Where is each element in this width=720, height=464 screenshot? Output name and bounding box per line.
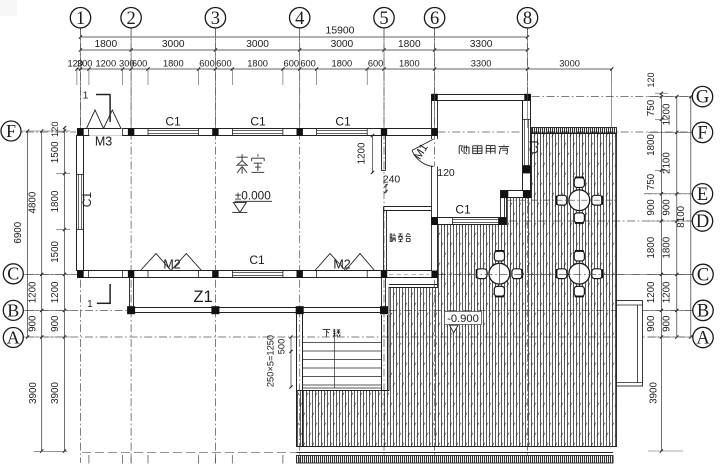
window C1 left — [78, 174, 80, 230]
dim row B 1800/3000... — [81, 49, 528, 51]
deck top edge band — [532, 128, 617, 134]
bottom dashed line — [82, 451, 296, 453]
column F-4 — [297, 128, 303, 135]
svg-text:C1: C1 — [527, 139, 541, 155]
window C1 col8 — [524, 119, 526, 165]
label 茶室 — [237, 156, 248, 158]
svg-text:600: 600 — [216, 58, 232, 68]
svg-text:900: 900 — [646, 315, 657, 332]
grid bubble 1 top — [70, 8, 90, 28]
label 服务台 — [389, 234, 391, 242]
svg-text:3300: 3300 — [470, 39, 493, 50]
wall col2 C-B — [129, 278, 131, 308]
right dim line outer — [676, 97, 678, 337]
grid line col 4 — [299, 28, 301, 463]
svg-text:600: 600 — [132, 58, 148, 68]
svg-text:F: F — [697, 124, 707, 144]
grid bubble B right — [693, 300, 713, 320]
svg-text:750: 750 — [646, 99, 657, 116]
beam Z1 — [131, 307, 384, 309]
grid bubble 8 top — [517, 8, 537, 28]
svg-text:C1: C1 — [250, 115, 266, 129]
right connector y194 — [648, 193, 694, 195]
corner smudge — [0, 0, 17, 16]
table 3 — [574, 251, 584, 261]
wall col6 lower — [432, 167, 438, 271]
svg-text:1800: 1800 — [94, 39, 117, 50]
wall notch vertical — [500, 198, 502, 218]
grid line row B — [11, 309, 130, 311]
bottom wall jamb line — [282, 271, 284, 278]
svg-text:1800: 1800 — [247, 58, 268, 68]
wall row E — [501, 191, 531, 198]
wall col6 upper — [431, 101, 433, 140]
column E-west — [501, 191, 508, 198]
stair label 下缘 — [323, 328, 331, 330]
svg-text:8100: 8100 — [676, 205, 687, 227]
door M1 leaf+arc — [412, 139, 434, 151]
bottom wall jamb line — [88, 271, 90, 278]
stair treads — [303, 342, 382, 344]
svg-text:900: 900 — [662, 199, 673, 216]
svg-text:1200: 1200 — [95, 58, 116, 68]
grid line row A — [11, 336, 693, 338]
right connector y221 — [648, 220, 694, 222]
column D-east — [499, 218, 506, 225]
svg-text:C: C — [697, 266, 709, 286]
svg-text:Z1: Z1 — [193, 288, 212, 306]
svg-text:600: 600 — [199, 58, 215, 68]
column F-5 — [381, 128, 387, 135]
level -0.900 — [445, 312, 482, 325]
right connector y132 — [648, 131, 694, 133]
column F-1 — [77, 128, 83, 135]
top wall jamb line — [198, 129, 200, 136]
svg-text:1200: 1200 — [50, 281, 61, 303]
window C1 row D — [453, 219, 499, 221]
column C-3 — [212, 271, 218, 278]
grid bubble G right — [692, 86, 712, 106]
left wall jamb lines — [77, 174, 84, 176]
column C-6 — [431, 271, 437, 278]
svg-text:C1: C1 — [80, 192, 94, 208]
svg-text:1200: 1200 — [662, 103, 673, 125]
service room left wall — [383, 207, 385, 271]
grid bubble D right — [692, 211, 712, 231]
svg-text:1200: 1200 — [357, 142, 368, 164]
svg-text:3000: 3000 — [162, 39, 185, 50]
top wall jamb line — [282, 129, 284, 136]
left connector y310.4 — [23, 309, 71, 311]
svg-text:E: E — [697, 185, 708, 205]
svg-text:A: A — [7, 327, 20, 347]
svg-text:250×5=1250: 250×5=1250 — [266, 335, 276, 387]
svg-text:3000: 3000 — [246, 39, 269, 50]
svg-text:4800: 4800 — [27, 191, 38, 213]
right connector y310 — [648, 309, 694, 311]
window C1 top 3-4 — [232, 130, 283, 132]
stair right rail — [381, 315, 383, 391]
grid bubble 2 top — [121, 8, 141, 28]
svg-text:600: 600 — [368, 58, 384, 68]
svg-text:1200: 1200 — [646, 281, 657, 303]
svg-text:F: F — [6, 121, 16, 141]
section mark 1 top — [96, 94, 111, 96]
svg-text:M2: M2 — [333, 258, 350, 272]
top wall jamb line — [122, 129, 124, 136]
stair center line — [333, 330, 335, 388]
deck side step block — [617, 301, 643, 387]
column G-6 — [431, 94, 437, 101]
bottom wall jamb line — [122, 271, 124, 278]
svg-text:1800: 1800 — [399, 58, 420, 68]
svg-text:8: 8 — [523, 9, 532, 29]
row C extension stubs — [76, 69, 78, 85]
grid line col 8 — [527, 28, 529, 455]
top wall jamb line — [232, 129, 234, 136]
top wall jamb line — [147, 129, 149, 136]
left connector y337 — [23, 336, 71, 338]
post Z1-4 — [296, 306, 304, 314]
column F-2 — [128, 128, 134, 135]
grid bubble B left — [3, 300, 23, 320]
column G-8 — [524, 94, 530, 101]
svg-text:B: B — [7, 300, 19, 320]
column C-1 — [77, 271, 83, 278]
svg-text:C: C — [7, 264, 19, 284]
window C1 top 2-3 — [148, 130, 199, 132]
svg-text:M3: M3 — [95, 134, 112, 148]
deck bottom double edge — [297, 452, 614, 454]
svg-text:1800: 1800 — [398, 39, 421, 50]
table 2 — [494, 251, 504, 261]
grid bubble 5 top — [374, 8, 394, 28]
post Z1-2 — [127, 306, 135, 314]
svg-text:3900: 3900 — [50, 382, 61, 404]
svg-text:1500: 1500 — [50, 240, 61, 262]
grid bubble E right — [692, 184, 712, 204]
label 附属用房 — [458, 146, 460, 154]
svg-text:1500: 1500 — [50, 141, 61, 163]
column F-6 — [431, 128, 437, 135]
svg-text:1: 1 — [83, 91, 89, 102]
svg-text:3900: 3900 — [28, 382, 39, 404]
column F-3 — [212, 128, 218, 135]
right connector y337 — [648, 336, 694, 338]
top wall jamb line — [88, 129, 90, 136]
svg-text:600: 600 — [300, 58, 316, 68]
svg-text:15900: 15900 — [326, 26, 355, 37]
table 1 — [574, 178, 584, 188]
svg-text:1800: 1800 — [163, 58, 184, 68]
svg-text:6: 6 — [430, 9, 439, 29]
stub dim 1200 — [372, 136, 374, 173]
left connector 173 — [56, 173, 70, 175]
svg-text:120: 120 — [646, 72, 656, 87]
grid bubble F right — [692, 122, 712, 142]
tea room left wall — [77, 136, 84, 271]
post Z1-5 — [380, 306, 388, 314]
svg-text:4: 4 — [295, 9, 304, 29]
grid bubble A left — [3, 328, 23, 348]
window C1 bottom 3-4 — [232, 272, 283, 274]
svg-text:3000: 3000 — [559, 58, 580, 68]
svg-text:C1: C1 — [455, 203, 471, 217]
bottom cropped ticks — [88, 455, 90, 464]
post Z1-3 — [211, 306, 219, 314]
tea room top wall — [78, 129, 438, 136]
svg-text:600: 600 — [284, 58, 300, 68]
svg-text:900: 900 — [27, 315, 38, 332]
svg-text:M2: M2 — [163, 258, 180, 272]
grid bubble 6 top — [424, 8, 444, 28]
grid line row F — [11, 131, 76, 133]
bottom wall jamb line — [147, 271, 149, 278]
grid line row E — [644, 193, 693, 195]
service room top wall — [384, 206, 432, 208]
left dim line outer 6900 — [27, 131, 29, 337]
column col8 mid — [523, 166, 531, 174]
deck hatched area — [297, 134, 617, 447]
top wall jamb line — [366, 129, 368, 136]
wall col5 C-B — [381, 278, 383, 308]
column E-8 — [523, 191, 531, 198]
grid line row G — [532, 96, 693, 98]
grid dash over tables row C — [455, 273, 693, 275]
svg-text:1800: 1800 — [332, 58, 353, 68]
svg-text:1200: 1200 — [662, 281, 673, 303]
grid bubble F left — [1, 121, 21, 141]
svg-text:1800: 1800 — [50, 190, 61, 212]
left dim line mid 4800 — [41, 131, 43, 451]
deck line over table1 — [532, 199, 617, 201]
door M2b triangles — [315, 254, 375, 271]
door M2a triangles — [141, 254, 202, 271]
dim line 15900 — [81, 36, 528, 38]
svg-text:D: D — [696, 212, 709, 232]
svg-text:900: 900 — [646, 199, 657, 216]
svg-text:A: A — [696, 329, 710, 349]
svg-text:1: 1 — [87, 299, 93, 310]
section mark 1 bottom — [109, 284, 111, 303]
wall row D — [432, 218, 507, 225]
svg-text:300: 300 — [77, 58, 93, 68]
svg-text:G: G — [696, 88, 709, 108]
dim row C detailed — [77, 68, 612, 70]
stair bottom edge — [303, 384, 382, 386]
svg-text:1200: 1200 — [27, 281, 38, 303]
svg-text:3: 3 — [211, 9, 220, 29]
bottom wall jamb line — [316, 271, 318, 278]
bottom wall jamb line — [232, 271, 234, 278]
svg-text:C1: C1 — [335, 115, 351, 129]
column extension lines — [80, 28, 82, 128]
svg-text:900: 900 — [50, 315, 61, 332]
svg-text:3900: 3900 — [649, 382, 660, 404]
svg-text:750: 750 — [646, 173, 657, 190]
deck bottom step band — [297, 456, 614, 464]
door M3 opening blank — [89, 128, 122, 136]
svg-text:B: B — [697, 302, 709, 322]
grid line row D — [435, 220, 693, 222]
right connector window marks — [655, 118, 668, 120]
column C-2 — [128, 271, 134, 278]
column D-6 — [431, 218, 438, 225]
window C1 top 4-5 — [317, 130, 368, 132]
svg-text:240: 240 — [383, 173, 401, 185]
svg-text:120: 120 — [437, 167, 455, 179]
svg-text:1800: 1800 — [646, 134, 657, 156]
grid line col 2 — [130, 28, 132, 463]
top wall jamb line — [316, 129, 318, 136]
svg-text:120: 120 — [50, 121, 60, 137]
bottom wall center dash 5-6 — [389, 274, 429, 276]
left connector bottom — [34, 450, 68, 452]
right dim line total 8100 — [690, 97, 692, 337]
svg-text:1: 1 — [76, 9, 85, 29]
wall col5 stub — [381, 136, 383, 171]
svg-text:C1: C1 — [249, 253, 265, 267]
attached room right wall — [523, 101, 531, 191]
column C-4 — [297, 271, 303, 278]
svg-text:900: 900 — [662, 315, 673, 332]
left connector y131 — [23, 130, 71, 132]
svg-text:C1: C1 — [165, 115, 181, 129]
grid bubble 4 top — [290, 8, 310, 28]
grid line col 3 — [214, 28, 216, 463]
left connector 229 — [56, 229, 70, 231]
grid line col 1 — [80, 28, 82, 463]
svg-text:-0.900: -0.900 — [447, 313, 479, 325]
grid bubble 3 top — [205, 8, 225, 28]
grid line col 6 — [434, 28, 436, 455]
left connector y274.4 — [23, 273, 71, 275]
svg-text:3300: 3300 — [471, 58, 492, 68]
right connector y274 — [648, 273, 694, 275]
deck small step edge — [389, 284, 438, 286]
svg-text:3000: 3000 — [331, 39, 354, 50]
stair left rail — [296, 313, 298, 447]
grid bubble A right — [693, 327, 713, 347]
attached room top wall G — [432, 95, 531, 101]
svg-text:5: 5 — [379, 9, 388, 29]
bottom wall jamb line — [198, 271, 200, 278]
bottom wall jamb line — [366, 271, 368, 278]
svg-text:2: 2 — [126, 9, 135, 29]
column C-5 — [381, 271, 387, 278]
svg-text:500: 500 — [277, 339, 287, 355]
svg-text:6900: 6900 — [13, 221, 24, 243]
grid line row C — [11, 273, 77, 275]
grid line col 5 — [383, 28, 385, 455]
svg-text:1800: 1800 — [662, 236, 673, 258]
deck corner extension line — [611, 69, 613, 127]
svg-text:±0.000: ±0.000 — [235, 188, 271, 202]
right connector y97 — [648, 96, 694, 98]
svg-text:1800: 1800 — [646, 236, 657, 258]
right dim line inner — [660, 93, 662, 451]
left dim line inner — [64, 128, 66, 451]
door M3 triangles — [87, 110, 122, 129]
deck line y200 — [506, 199, 616, 201]
grid bubble C left — [3, 264, 23, 284]
right connector bottom — [648, 450, 683, 452]
grid bubble C right — [693, 264, 713, 284]
tea room bottom wall — [78, 271, 438, 278]
stair dim 500 — [290, 337, 292, 387]
